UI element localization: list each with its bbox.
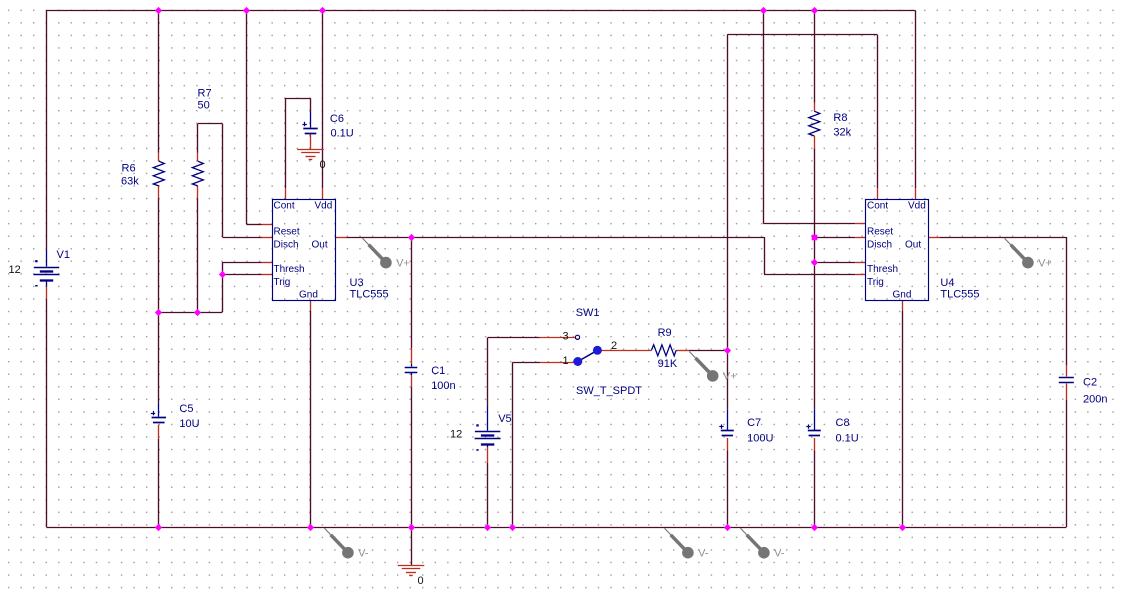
svg-text:R6: R6 — [122, 163, 136, 175]
svg-text:C6: C6 — [330, 113, 344, 125]
svg-text:0.1U: 0.1U — [331, 128, 354, 140]
svg-text:2: 2 — [611, 340, 617, 352]
svg-text:Reset: Reset — [867, 226, 893, 237]
svg-text:12: 12 — [450, 429, 462, 441]
svg-text:Thresh: Thresh — [274, 264, 305, 275]
svg-text:Out: Out — [312, 240, 328, 251]
svg-text:Trig: Trig — [867, 277, 884, 288]
svg-text:63k: 63k — [121, 176, 139, 188]
svg-text:V-: V- — [698, 548, 709, 560]
svg-text:Vdd: Vdd — [315, 201, 333, 212]
svg-text:Gnd: Gnd — [893, 290, 912, 301]
svg-text:1: 1 — [563, 355, 569, 367]
svg-text:SW_T_SPDT: SW_T_SPDT — [576, 385, 642, 397]
svg-text:TLC555: TLC555 — [940, 289, 979, 301]
svg-text:C1: C1 — [431, 365, 445, 377]
svg-text:50: 50 — [198, 100, 210, 112]
svg-text:Reset: Reset — [274, 226, 300, 237]
svg-text:0.1U: 0.1U — [836, 433, 859, 445]
svg-text:200n: 200n — [1083, 393, 1107, 405]
svg-text:C5: C5 — [179, 403, 193, 415]
svg-text:Cont: Cont — [274, 201, 295, 212]
svg-text:3: 3 — [563, 331, 569, 343]
svg-text:Disch: Disch — [867, 240, 892, 251]
svg-text:C2: C2 — [1083, 376, 1097, 388]
svg-text:V-: V- — [774, 548, 785, 560]
svg-text:V+: V+ — [396, 257, 410, 269]
svg-text:R9: R9 — [658, 327, 672, 339]
svg-text:32k: 32k — [833, 127, 851, 139]
svg-text:12: 12 — [9, 264, 21, 276]
svg-text:Gnd: Gnd — [299, 290, 318, 301]
svg-text:R7: R7 — [198, 87, 212, 99]
svg-text:Trig: Trig — [274, 277, 291, 288]
svg-text:100U: 100U — [747, 433, 773, 445]
svg-text:Vdd: Vdd — [908, 201, 926, 212]
svg-text:100n: 100n — [431, 380, 455, 392]
svg-text:Out: Out — [905, 240, 921, 251]
svg-text:Disch: Disch — [274, 240, 299, 251]
svg-text:U4: U4 — [940, 277, 954, 289]
svg-text:C7: C7 — [747, 417, 761, 429]
svg-text:V+: V+ — [723, 371, 737, 383]
svg-text:10U: 10U — [179, 418, 199, 430]
svg-text:V5: V5 — [498, 413, 511, 425]
svg-text:V+: V+ — [1038, 257, 1052, 269]
svg-text:R8: R8 — [833, 112, 847, 124]
svg-text:Cont: Cont — [867, 201, 888, 212]
svg-text:91K: 91K — [658, 358, 678, 370]
svg-text:SW1: SW1 — [576, 307, 600, 319]
svg-text:V1: V1 — [57, 249, 70, 261]
svg-text:TLC555: TLC555 — [350, 289, 389, 301]
svg-text:V-: V- — [358, 548, 369, 560]
svg-text:0: 0 — [320, 159, 326, 171]
svg-text:U3: U3 — [350, 277, 364, 289]
svg-text:C8: C8 — [836, 417, 850, 429]
svg-text:Thresh: Thresh — [867, 264, 898, 275]
svg-text:0: 0 — [418, 575, 424, 587]
